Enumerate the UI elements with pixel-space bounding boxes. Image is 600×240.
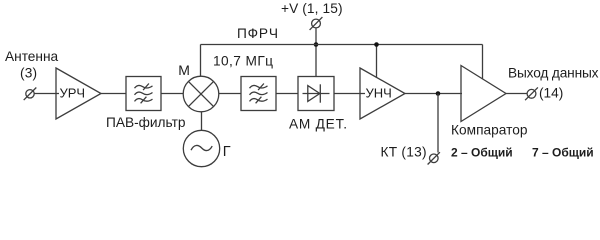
wire mixer to oscillator <box>201 112 203 131</box>
svg-text:Г: Г <box>223 144 231 160</box>
amplifier УНЧ <box>360 68 405 119</box>
antenna input node pin 3 <box>24 88 37 101</box>
wire АМ ДЕТ. to УНЧ <box>334 93 365 95</box>
filter ПАВ-фильтр box <box>126 77 161 111</box>
detector АМ ДЕТ. box with diode <box>298 77 334 111</box>
svg-text:(14): (14) <box>539 86 563 101</box>
test point node КТ pin 13 <box>428 152 440 164</box>
wire junction down to КТ node <box>437 94 439 153</box>
power node +V pins 1,15 <box>310 17 323 30</box>
svg-text:ПФРЧ: ПФРЧ <box>237 26 278 41</box>
svg-text:ПАВ-фильтр: ПАВ-фильтр <box>106 115 186 130</box>
svg-text:Антенна: Антенна <box>5 49 59 64</box>
oscillator Г <box>183 130 219 166</box>
wire УРЧ to ПАВ-фильтр <box>101 93 126 95</box>
wire comparator to output node <box>506 93 527 95</box>
wire rail down to comparator <box>482 45 484 80</box>
wire ПАВ-фильтр to mixer <box>161 93 184 95</box>
svg-text:АМ ДЕТ.: АМ ДЕТ. <box>289 116 347 131</box>
junction dot rail УНЧ <box>374 42 379 47</box>
wire mixer to filter 10,7 МГц <box>219 93 241 95</box>
mixer М <box>183 76 219 112</box>
wire rail down to УНЧ <box>376 45 378 78</box>
wire antenna node to УРЧ <box>34 93 59 95</box>
svg-text:Компаратор: Компаратор <box>451 122 528 137</box>
filter 10,7 МГц box <box>241 77 276 111</box>
svg-text:10,7 МГц: 10,7 МГц <box>213 54 273 69</box>
svg-text:Выход данных: Выход данных <box>508 66 599 81</box>
output node pin 14 <box>525 87 538 100</box>
svg-text:УНЧ: УНЧ <box>366 86 392 101</box>
wire УНЧ to comparator with junction <box>405 91 462 96</box>
svg-text:(3): (3) <box>20 66 37 81</box>
svg-text:2 – Общий: 2 – Общий <box>451 146 513 160</box>
svg-text:+V (1, 15): +V (1, 15) <box>281 1 343 16</box>
svg-text:7 – Общий: 7 – Общий <box>532 146 594 160</box>
wire rail down to mixer <box>200 45 202 77</box>
wire +V node down to rail and АМ ДЕТ. box <box>315 28 317 77</box>
svg-text:КТ (13): КТ (13) <box>381 145 427 160</box>
amplifier УРЧ <box>56 68 101 119</box>
wire power rail horizontal <box>201 44 483 46</box>
junction dot +V rail <box>314 42 319 47</box>
svg-text:УРЧ: УРЧ <box>60 86 86 101</box>
svg-text:М: М <box>178 62 190 78</box>
comparator <box>461 66 506 122</box>
wire filter to АМ детектор <box>276 93 298 95</box>
